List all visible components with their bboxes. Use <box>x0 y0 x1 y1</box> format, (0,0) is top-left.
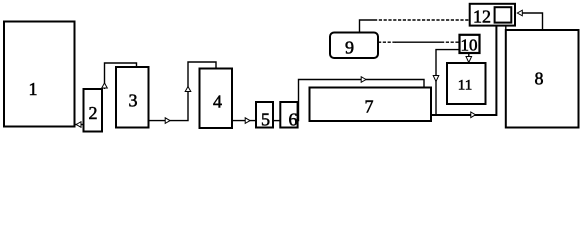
wire box9 right to box10 solid middle <box>395 41 441 43</box>
box 4 <box>200 69 233 129</box>
arrowhead into box1 (apex left) <box>76 122 81 128</box>
svg-text:8: 8 <box>535 69 544 89</box>
arrowhead down from box10 into box11 <box>466 57 472 63</box>
arrowhead left into box12 inner square <box>517 10 522 16</box>
box 3 <box>116 67 149 128</box>
wire box6 up and over to box7 top <box>297 80 425 121</box>
svg-text:6: 6 <box>289 109 298 129</box>
svg-text:10: 10 <box>461 36 478 55</box>
wire box12 bottom stub to box8 top <box>505 26 507 30</box>
arrowhead right on box7-box8 line <box>471 112 476 118</box>
box 9 <box>330 33 378 59</box>
wire box9 right to box10 dashed start <box>378 41 396 43</box>
box 12 inner square <box>495 7 512 22</box>
box 6 <box>280 102 297 128</box>
box 10 <box>460 35 480 53</box>
box 1 <box>4 22 75 127</box>
box 8 <box>506 30 579 128</box>
box 12 outer <box>470 4 515 26</box>
wire box7 right to riser into box12 bottom (thick) <box>431 26 496 115</box>
svg-text:5: 5 <box>261 109 270 129</box>
arrowhead right on loop top line <box>361 77 366 83</box>
wire box12 arrow line from vertical <box>521 13 543 30</box>
box 5 <box>256 102 273 128</box>
svg-text:11: 11 <box>458 78 472 94</box>
box 11 <box>447 63 486 104</box>
svg-text:9: 9 <box>345 38 354 58</box>
svg-text:7: 7 <box>365 97 374 117</box>
wire box3 to riser of box4 <box>149 62 217 121</box>
box 7 <box>310 88 432 122</box>
wire box5 to box6 <box>272 120 280 122</box>
svg-text:2: 2 <box>89 103 98 123</box>
wire dashed box9 to box12 <box>374 19 470 21</box>
wire riser box2 top to box3 top <box>105 63 137 89</box>
wire box10 down to box11 <box>468 53 470 57</box>
svg-text:3: 3 <box>129 91 138 111</box>
wire box10 bottom-left down to main line <box>436 50 460 116</box>
wire box9 top to box12 solid part <box>360 20 375 33</box>
svg-text:1: 1 <box>29 79 38 99</box>
wire box2 to box1 <box>75 124 84 126</box>
arrowhead right on box4-box5 line <box>245 118 250 124</box>
wire box4 to box5 <box>232 120 256 122</box>
svg-text:4: 4 <box>213 92 222 112</box>
wire box9 right to box10 dashed end <box>441 41 460 43</box>
box 2 <box>84 89 103 132</box>
svg-text:12: 12 <box>473 7 491 27</box>
arrowhead right on box3-box4 line <box>165 118 170 124</box>
arrowhead up on riser above box2 <box>102 83 108 88</box>
arrowhead down on control vertical <box>433 76 439 82</box>
arrowhead up on riser to box4 <box>185 87 191 92</box>
